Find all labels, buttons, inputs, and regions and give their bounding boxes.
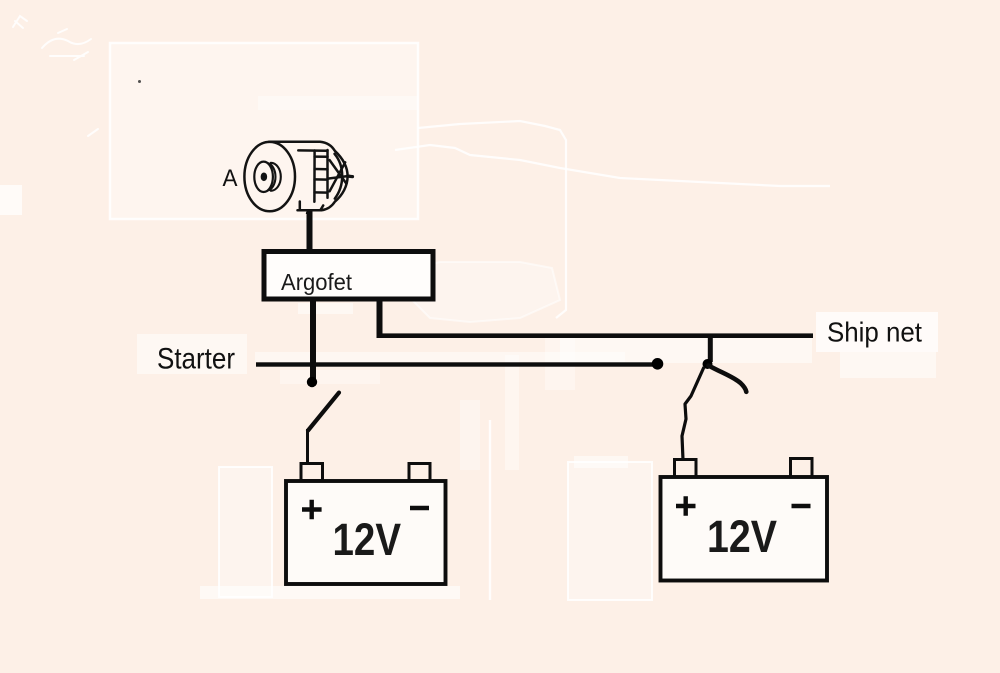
- rib ladder right vertical: [326, 150, 329, 198]
- Argofet box: [264, 252, 433, 300]
- alternator front ellipse: [244, 142, 295, 211]
- right battery terminal +: [675, 460, 697, 478]
- pulley center dot: [262, 174, 266, 180]
- svg-text:Ship net: Ship net: [827, 317, 922, 348]
- svg-text:12V: 12V: [707, 511, 777, 562]
- svg-text:A: A: [223, 165, 238, 192]
- dome mid line: [328, 176, 350, 179]
- switch S2 blade curve: [709, 366, 747, 392]
- svg-text:Argofet: Argofet: [281, 269, 353, 295]
- battery B2 case: [661, 477, 828, 581]
- wire switch to left battery: [306, 429, 309, 463]
- wire Argofet right output down: [377, 299, 383, 337]
- shaft nub: [348, 175, 353, 179]
- wire blob at foot: [306, 211, 312, 214]
- B2 plus sign: [676, 496, 696, 515]
- dome cross X: [330, 160, 347, 191]
- pulley face ring: [254, 162, 273, 192]
- svg-text:Starter: Starter: [157, 343, 235, 376]
- wire Argofet left output down: [310, 299, 316, 379]
- wire S2 to right battery: [682, 367, 704, 460]
- wire ship net drop to switch S2: [708, 335, 713, 362]
- stator top line: [298, 149, 327, 152]
- pulley depth arc 1: [268, 163, 275, 190]
- node junction S2: [703, 359, 713, 369]
- svg-text:12V: 12V: [333, 514, 402, 565]
- rib rungs: [315, 157, 328, 193]
- mounting foot: [300, 202, 323, 211]
- battery B1 case: [286, 481, 446, 584]
- node junction left: [307, 377, 317, 387]
- pulley depth arc 2: [271, 163, 281, 191]
- B2 minus sign: [792, 504, 811, 509]
- B1 minus sign: [410, 506, 429, 511]
- switch S1 blade: [308, 393, 339, 431]
- B1 plus sign: [302, 500, 322, 519]
- dome meridian arc: [335, 154, 343, 199]
- alternator body outline: [269, 142, 348, 211]
- right battery terminal -: [791, 459, 813, 478]
- faint whited-out backdrop shapes: [0, 43, 938, 600]
- wire alternator to Argofet: [307, 211, 313, 251]
- rib ladder left vertical: [313, 151, 316, 202]
- wire ship net horizontal: [377, 333, 814, 338]
- speck dot: [138, 80, 141, 83]
- left battery terminal +: [301, 464, 323, 481]
- left battery terminal -: [409, 464, 430, 481]
- wire starter horizontal: [256, 362, 658, 366]
- node starter end dot: [652, 358, 664, 370]
- faint top-left white squiggles: [13, 16, 98, 136]
